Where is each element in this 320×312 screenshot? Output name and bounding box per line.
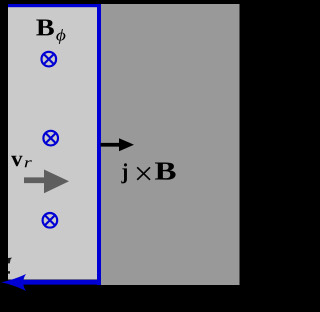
velocity arrow (gray, pointing right) <box>24 170 69 194</box>
label j x B : times sign <box>137 167 150 180</box>
blue vertical boundary line <box>97 4 101 285</box>
label B_phi : B <box>36 20 54 36</box>
outer plasma region (dark gray) <box>99 4 240 285</box>
label v_r : v <box>11 156 23 167</box>
B-field symbol (circled cross) 3 <box>43 213 58 228</box>
clipped axis label z <box>8 258 12 264</box>
shell region (light gray) <box>8 7 99 280</box>
blue top boundary line <box>8 4 101 7</box>
label v_r : r subscript <box>25 160 32 167</box>
blue bottom axis line <box>12 280 101 285</box>
label j x B : B <box>155 163 176 180</box>
B-field symbol (circled cross) 1 <box>42 52 57 67</box>
j x B force arrow (black, pointing right) <box>101 138 135 151</box>
label j x B : j <box>121 163 127 183</box>
label B_phi : phi subscript <box>56 29 65 44</box>
blue axis arrowhead (pointing left) <box>1 274 26 291</box>
B-field symbol (circled cross) 2 <box>43 131 58 146</box>
